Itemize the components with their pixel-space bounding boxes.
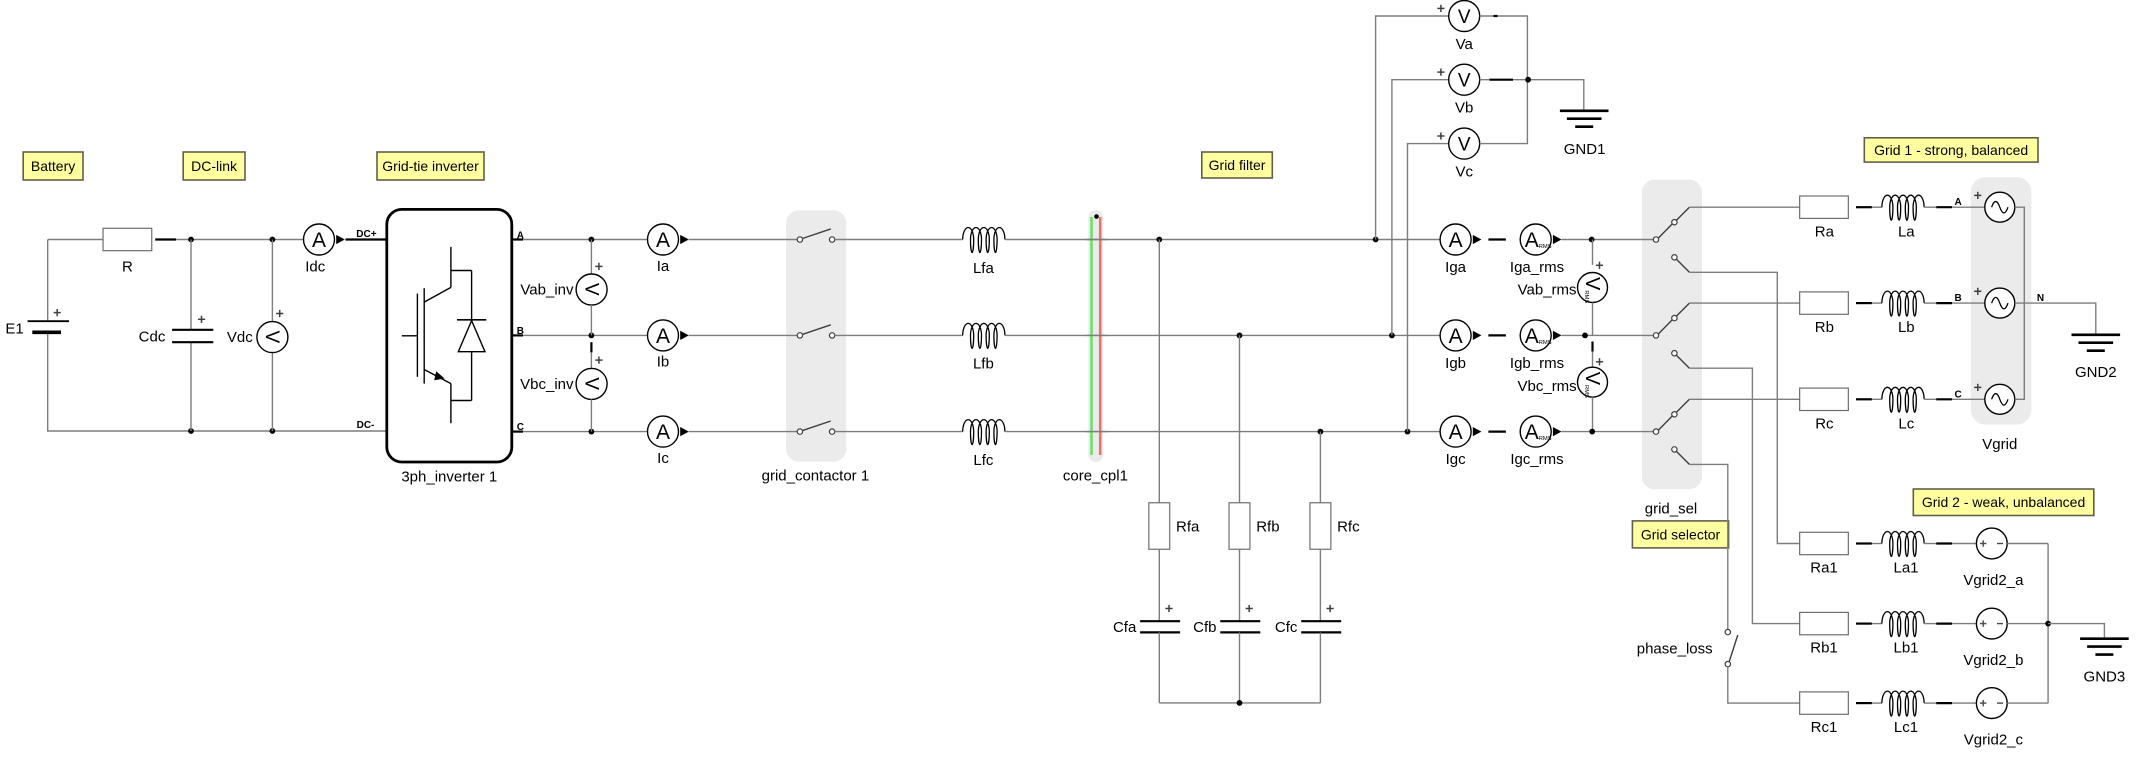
svg-text:Ra1: Ra1 <box>1810 560 1838 577</box>
svg-text:Vb: Vb <box>1455 100 1473 117</box>
ammeter Iga_rms (RMS) <box>1510 224 1564 276</box>
inductor La1 <box>1882 532 1924 577</box>
terminal stub <box>512 238 523 240</box>
svg-text:Va: Va <box>1456 36 1474 53</box>
terminal stub <box>1856 622 1872 624</box>
wire phase C <box>512 431 648 433</box>
pin label A <box>517 230 524 241</box>
svg-text:V: V <box>261 331 282 344</box>
annotation "DC-link" <box>183 152 245 180</box>
wire <box>1952 206 1985 208</box>
voltage source Vgrid2_b <box>1963 608 2023 669</box>
wire <box>590 399 592 431</box>
label grid_sel <box>1645 500 1698 517</box>
voltmeter Vbc_inv <box>520 357 607 400</box>
wire <box>1592 240 1594 265</box>
core_cpl1 green line <box>1090 217 1093 455</box>
capacitor Cfb <box>1193 605 1260 636</box>
wire <box>1158 632 1160 703</box>
wire <box>1952 702 1976 704</box>
annotation "Grid 2 - weak, unbalanced" <box>1913 489 2094 516</box>
svg-text:Grid-tie inverter: Grid-tie inverter <box>382 158 479 174</box>
voltmeter Vc <box>1437 128 1479 180</box>
voltmeter Vb <box>1437 64 1479 116</box>
svg-text:grid_contactor 1: grid_contactor 1 <box>762 467 870 484</box>
probe arrow <box>1553 331 1562 340</box>
pin label B <box>1954 293 1961 304</box>
wire <box>590 305 592 336</box>
svg-text:Lfb: Lfb <box>973 356 994 373</box>
svg-text:E1: E1 <box>5 320 23 337</box>
wire <box>1562 334 1654 336</box>
voltmeter Vbc_rms <box>1518 358 1608 398</box>
inductor Lfc <box>963 420 1005 469</box>
svg-text:Rfb: Rfb <box>1256 519 1279 536</box>
wire <box>1924 398 1936 400</box>
wire <box>1005 334 1440 336</box>
svg-text:Igb: Igb <box>1445 355 1466 372</box>
svg-text:Vgrid2_a: Vgrid2_a <box>1963 572 2024 589</box>
capacitor Cfa <box>1113 605 1180 636</box>
wire <box>1158 240 1160 503</box>
svg-text:V: V <box>580 283 601 296</box>
wire <box>835 239 963 241</box>
svg-text:A: A <box>1449 229 1463 252</box>
wire <box>590 352 592 368</box>
label Vgrid <box>1982 436 2017 453</box>
junction <box>188 237 194 243</box>
wire <box>271 240 273 322</box>
terminal stub <box>155 238 176 240</box>
wire <box>1872 398 1882 400</box>
switch phase_loss <box>1637 629 1738 666</box>
svg-text:La1: La1 <box>1893 560 1918 577</box>
probe arrow <box>680 235 689 244</box>
wire <box>2048 624 2104 638</box>
ammeter Ia <box>648 224 679 275</box>
svg-text:Iga: Iga <box>1445 259 1467 276</box>
svg-text:Ib: Ib <box>657 354 670 371</box>
annotation "Grid filter" <box>1202 152 1273 178</box>
pin label DC- <box>357 420 375 431</box>
junction <box>1318 429 1324 435</box>
wire <box>835 431 963 433</box>
svg-text:Cdc: Cdc <box>139 329 166 346</box>
wire <box>191 430 387 432</box>
probe arrow <box>1473 235 1482 244</box>
junction <box>270 237 276 243</box>
probe arrow <box>1553 235 1562 244</box>
label grid_contactor 1 <box>762 467 870 484</box>
svg-text:Lfa: Lfa <box>973 260 995 277</box>
ground GND2 <box>2072 335 2121 381</box>
svg-text:DC+: DC+ <box>356 229 376 240</box>
voltage source Vgrid phase A <box>1974 192 2015 222</box>
svg-text:C: C <box>1954 389 1961 400</box>
svg-text:Rfc: Rfc <box>1337 519 1360 536</box>
terminal stub <box>1936 702 1952 704</box>
wire <box>1872 702 1882 704</box>
svg-text:Vbc_rms: Vbc_rms <box>1518 378 1577 395</box>
svg-text:Ic: Ic <box>657 450 669 467</box>
capacitor Cdc <box>139 316 214 346</box>
wire <box>1480 80 1584 110</box>
voltage source Vgrid phase C <box>1974 384 2015 415</box>
resistor Ra1 <box>1800 532 1849 576</box>
resistor Rfb <box>1229 503 1279 550</box>
ammeter Ic <box>648 416 679 467</box>
svg-text:Rb: Rb <box>1815 319 1834 336</box>
wire <box>2015 207 2025 399</box>
wire <box>689 239 797 241</box>
resistor Rb1 <box>1800 612 1849 656</box>
wire <box>1480 16 1528 144</box>
svg-text:Lb: Lb <box>1898 319 1915 336</box>
wire <box>590 240 592 275</box>
probe arrow <box>1473 427 1482 436</box>
wire <box>1319 549 1321 621</box>
junction <box>1525 77 1531 83</box>
wire <box>1952 543 1976 545</box>
terminal stub <box>1856 398 1872 400</box>
terminal stub <box>1488 334 1506 336</box>
wire <box>1158 549 1160 621</box>
wire <box>2007 702 2048 704</box>
wire <box>1319 632 1321 703</box>
svg-text:Ia: Ia <box>657 258 670 275</box>
pin label N <box>2037 293 2044 304</box>
wire <box>1952 398 1985 400</box>
wire <box>1239 335 1241 502</box>
junction <box>1589 429 1595 435</box>
wire <box>1392 80 1449 336</box>
svg-text:Vc: Vc <box>1455 164 1473 181</box>
core_cpl1 dot <box>1094 214 1099 219</box>
wire <box>1319 432 1321 503</box>
svg-text:V: V <box>1458 134 1471 155</box>
svg-text:A: A <box>312 229 326 252</box>
junction <box>1589 237 1595 243</box>
svg-text:Lb1: Lb1 <box>1893 640 1918 657</box>
voltmeter Vab_rms <box>1518 262 1608 304</box>
inductor Lb <box>1882 291 1924 336</box>
inductor Lc <box>1882 387 1924 432</box>
wire <box>1239 549 1241 621</box>
svg-text:Rc: Rc <box>1815 415 1834 432</box>
ammeter Igb_rms (RMS) <box>1510 320 1564 372</box>
label core_cpl1 <box>1063 467 1128 484</box>
resistor Rc1 <box>1800 692 1849 736</box>
svg-text:Rc1: Rc1 <box>1811 719 1838 736</box>
wire <box>1924 543 1936 545</box>
wire <box>2015 303 2096 333</box>
junction <box>1237 333 1243 339</box>
resistor Rfc <box>1310 503 1360 550</box>
svg-text:phase_loss: phase_loss <box>1637 640 1713 657</box>
wire <box>47 240 49 322</box>
contactor panel <box>786 210 846 462</box>
junction <box>1156 237 1162 243</box>
svg-text:B: B <box>1954 293 1961 304</box>
pin label C <box>517 422 524 433</box>
pin label B <box>517 326 524 337</box>
wire <box>1085 431 1108 433</box>
ammeter Ib <box>648 320 679 371</box>
svg-text:GND2: GND2 <box>2075 364 2117 381</box>
junction <box>2045 621 2051 627</box>
annotation "Battery" <box>23 152 83 180</box>
wire <box>1689 368 1799 623</box>
terminal stub <box>1936 542 1952 544</box>
annotation "Grid 1 - strong, balanced" <box>1864 138 2038 162</box>
annotation "Grid selector" <box>1632 521 1728 548</box>
terminal stub <box>590 342 592 352</box>
svg-text:Cfb: Cfb <box>1193 619 1216 636</box>
svg-text:GND1: GND1 <box>1564 141 1606 158</box>
svg-text:V: V <box>1458 7 1471 28</box>
grid_sel panel <box>1642 180 1702 490</box>
pin label DC+ <box>356 229 376 240</box>
terminal stub <box>1936 206 1952 208</box>
wire <box>1562 239 1654 241</box>
diode symbol <box>457 271 486 401</box>
ammeter Idc <box>304 224 335 276</box>
wire <box>1689 464 1727 629</box>
terminal stub <box>1856 542 1872 544</box>
svg-text:GND3: GND3 <box>2084 669 2126 686</box>
annotation "Grid-tie inverter" <box>377 152 484 180</box>
Vgrid panel <box>1971 177 2032 425</box>
svg-text:Cfa: Cfa <box>1113 619 1137 636</box>
svg-text:A: A <box>656 325 670 348</box>
terminal stub <box>1488 238 1506 240</box>
junction <box>589 429 595 435</box>
ground GND1 <box>1560 111 1609 158</box>
wire <box>1872 302 1882 304</box>
switch grid_sel contact <box>1653 399 1689 464</box>
svg-text:Vgrid2_c: Vgrid2_c <box>1964 731 2024 748</box>
svg-text:A: A <box>656 229 670 252</box>
terminal stub <box>1488 431 1506 433</box>
inductor Lfa <box>963 228 1005 277</box>
junction <box>270 428 276 434</box>
resistor Rb <box>1800 292 1849 336</box>
minus tick <box>1494 15 1498 17</box>
svg-text:V: V <box>1458 71 1471 92</box>
svg-text:A: A <box>1449 421 1463 444</box>
svg-text:DC-link: DC-link <box>191 158 238 174</box>
voltmeter Va <box>1437 1 1479 53</box>
terminal stub <box>1936 302 1952 304</box>
svg-text:Grid selector: Grid selector <box>1641 526 1721 542</box>
svg-text:Cfc: Cfc <box>1275 619 1298 636</box>
ammeter Igc_rms (RMS) <box>1510 416 1563 468</box>
inductor Lb1 <box>1882 612 1924 657</box>
svg-text:Igc_rms: Igc_rms <box>1510 451 1563 468</box>
svg-text:Idc: Idc <box>305 259 326 276</box>
junction <box>1405 429 1411 435</box>
wire <box>1592 303 1594 336</box>
svg-text:A: A <box>1449 325 1463 348</box>
resistor Rfa <box>1149 503 1200 550</box>
switch contact <box>797 229 835 242</box>
ammeter Igb <box>1440 320 1471 372</box>
wire <box>1239 632 1241 703</box>
wire <box>1924 623 1936 625</box>
wire <box>1085 239 1108 241</box>
switch grid_sel contact <box>1653 207 1689 272</box>
wire <box>1592 352 1594 368</box>
svg-text:Grid 1 - strong, balanced: Grid 1 - strong, balanced <box>1874 142 2028 158</box>
wire <box>48 239 104 241</box>
minus mark <box>1490 79 1514 81</box>
voltage source Vgrid2_a <box>1963 528 2024 589</box>
voltage source Vgrid phase B <box>1974 288 2015 318</box>
probe arrow <box>336 235 345 244</box>
svg-text:Rb1: Rb1 <box>1810 640 1838 657</box>
switch grid_sel contact <box>1653 303 1689 368</box>
terminal stub <box>1856 302 1872 304</box>
probe arrow <box>680 331 689 340</box>
terminal stub <box>1856 702 1872 704</box>
svg-text:R: R <box>122 259 133 276</box>
terminal stub <box>1936 398 1952 400</box>
wire <box>1728 667 1800 703</box>
svg-text:Vab_rms: Vab_rms <box>1518 281 1577 298</box>
IGBT symbol <box>402 247 472 423</box>
svg-text:N: N <box>2037 293 2044 304</box>
svg-text:Vbc_inv: Vbc_inv <box>520 376 574 393</box>
wire <box>1872 623 1882 625</box>
probe arrow <box>1473 331 1482 340</box>
svg-text:Lfc: Lfc <box>973 452 994 469</box>
terminal stub <box>512 431 523 433</box>
switch contact <box>797 325 835 338</box>
inductor Lfb <box>963 323 1005 372</box>
wire <box>1872 543 1882 545</box>
junction <box>589 237 595 243</box>
wire <box>1924 302 1936 304</box>
terminal stub <box>1856 206 1872 208</box>
voltmeter Vab_inv <box>520 263 607 305</box>
svg-text:La: La <box>1898 223 1915 240</box>
svg-text:Igc: Igc <box>1446 451 1467 468</box>
wire <box>1924 206 1936 208</box>
wire <box>1376 16 1449 240</box>
junction <box>1237 700 1243 706</box>
ground GND3 <box>2080 639 2129 686</box>
svg-text:DC-: DC- <box>357 420 375 431</box>
junction <box>1389 333 1395 339</box>
terminal stub <box>346 238 387 240</box>
wire <box>1689 206 1799 208</box>
battery E1 <box>5 309 69 337</box>
voltmeter Vdc <box>227 310 288 353</box>
svg-text:V: V <box>580 377 601 390</box>
inverter block 3ph_inverter 1 <box>387 209 512 485</box>
wire <box>271 352 273 431</box>
wire <box>1952 302 1985 304</box>
wire <box>1408 144 1449 432</box>
wire <box>176 239 304 241</box>
wire <box>835 334 963 336</box>
terminal stub <box>1591 342 1593 352</box>
wire <box>1689 398 1799 400</box>
svg-text:A: A <box>656 421 670 444</box>
junction <box>589 333 595 339</box>
svg-text:Rfa: Rfa <box>1176 519 1200 536</box>
probe arrow <box>1553 427 1562 436</box>
capacitor Cfc <box>1275 605 1341 636</box>
core_cpl1 red line <box>1099 217 1102 455</box>
svg-text:Grid filter: Grid filter <box>1209 157 1266 173</box>
wire phase A <box>512 239 648 241</box>
terminal stub <box>1936 622 1952 624</box>
wire <box>1592 397 1594 431</box>
svg-text:Vgrid2_b: Vgrid2_b <box>1963 652 2023 669</box>
probe arrow <box>680 427 689 436</box>
switch contact <box>797 421 835 434</box>
svg-text:Iga_rms: Iga_rms <box>1510 259 1564 276</box>
svg-text:Battery: Battery <box>31 158 75 174</box>
ammeter Iga <box>1440 224 1471 276</box>
junction <box>1373 237 1379 243</box>
wire <box>2007 623 2048 625</box>
svg-text:Ra: Ra <box>1815 223 1835 240</box>
junction <box>1582 333 1588 339</box>
resistor Ra <box>1800 196 1849 240</box>
wire <box>689 334 797 336</box>
terminal stub <box>512 334 523 336</box>
svg-text:core_cpl1: core_cpl1 <box>1063 467 1128 484</box>
inductor La <box>1882 195 1924 240</box>
wire <box>689 431 797 433</box>
svg-text:Vab_inv: Vab_inv <box>520 282 574 299</box>
pin label A <box>1954 197 1961 208</box>
svg-text:Igb_rms: Igb_rms <box>1510 355 1564 372</box>
wire <box>1085 334 1108 336</box>
wire <box>1689 272 1799 543</box>
wire <box>1005 431 1440 433</box>
ammeter Igc <box>1440 416 1471 468</box>
svg-text:Lc1: Lc1 <box>1894 719 1918 736</box>
wire phase B <box>512 334 648 336</box>
wire <box>1924 702 1936 704</box>
svg-text:Lc: Lc <box>1898 415 1914 432</box>
svg-text:Vgrid: Vgrid <box>1982 436 2017 453</box>
resistor Rc <box>1800 388 1849 432</box>
inductor Lc1 <box>1882 691 1924 736</box>
wire <box>1562 431 1654 433</box>
wire <box>1689 302 1799 304</box>
pin label C <box>1954 389 1961 400</box>
wire <box>1159 702 1320 704</box>
svg-text:A: A <box>1954 197 1961 208</box>
core coupling panel <box>1088 210 1103 462</box>
wire <box>48 332 191 431</box>
svg-text:3ph_inverter 1: 3ph_inverter 1 <box>401 469 497 486</box>
wire <box>1005 239 1440 241</box>
resistor R <box>103 228 152 275</box>
wire <box>190 342 192 431</box>
wire <box>2007 543 2048 545</box>
voltage source Vgrid2_c <box>1964 688 2024 749</box>
wire <box>2047 544 2049 704</box>
wire <box>1872 206 1882 208</box>
svg-text:Vdc: Vdc <box>227 329 253 346</box>
wire <box>1952 623 1976 625</box>
svg-text:grid_sel: grid_sel <box>1645 500 1698 517</box>
